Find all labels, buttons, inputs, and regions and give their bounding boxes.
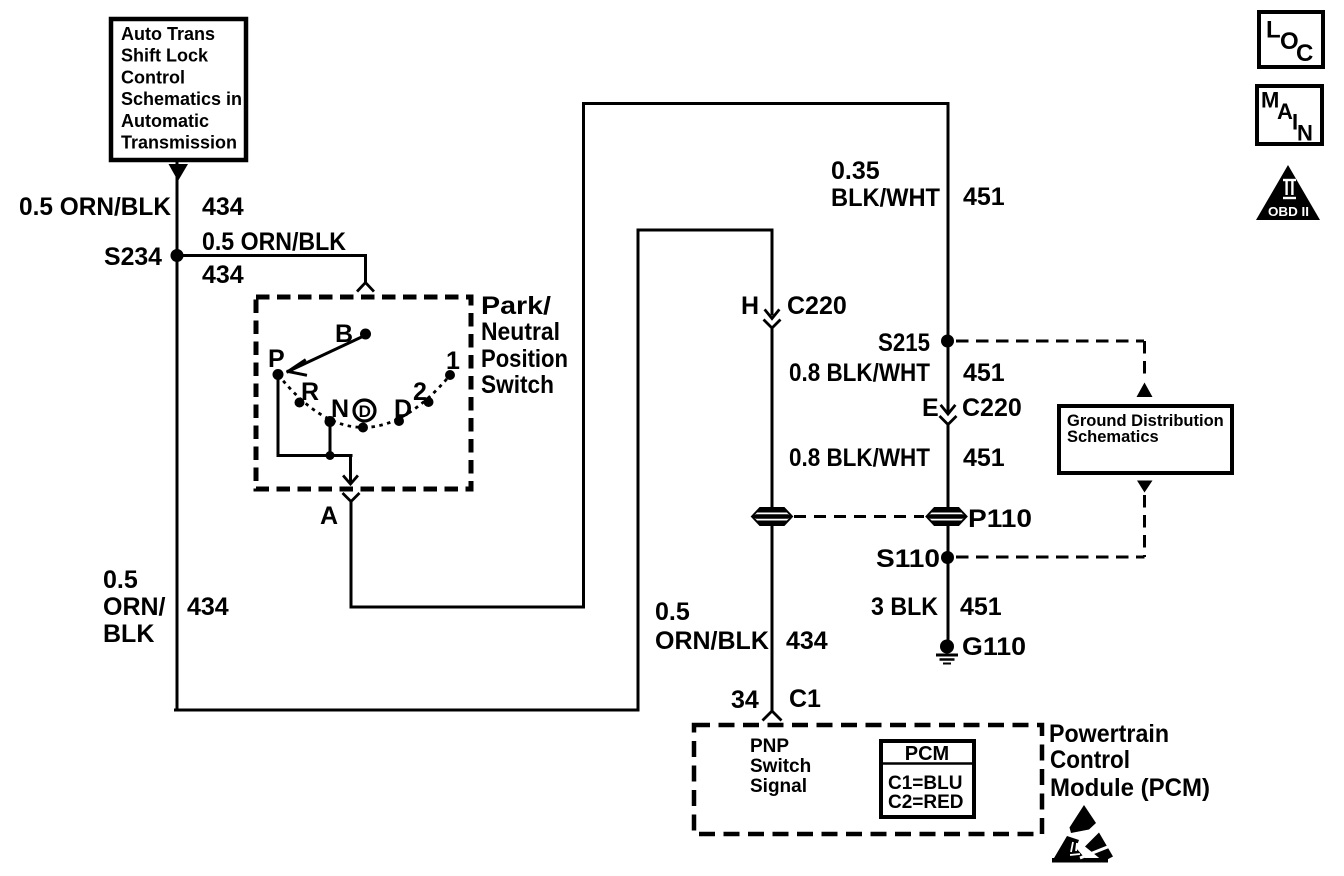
- svg-text:34: 34: [731, 686, 759, 714]
- svg-text:Control: Control: [1050, 746, 1130, 774]
- svg-text:C: C: [1296, 40, 1313, 67]
- svg-text:0.5: 0.5: [655, 598, 690, 626]
- svg-text:Auto Trans: Auto Trans: [121, 24, 215, 44]
- svg-text:PCM: PCM: [905, 743, 949, 765]
- svg-text:A: A: [1277, 99, 1293, 124]
- svg-text:0.5 ORN/BLK: 0.5 ORN/BLK: [19, 193, 171, 221]
- svg-text:H: H: [741, 292, 759, 320]
- svg-text:OBD II: OBD II: [1268, 205, 1309, 219]
- svg-text:Automatic: Automatic: [121, 111, 209, 131]
- svg-text:C1: C1: [789, 685, 821, 713]
- svg-text:ORN/BLK: ORN/BLK: [655, 627, 769, 655]
- svg-text:P: P: [268, 345, 285, 373]
- svg-text:Schematics in: Schematics in: [121, 89, 242, 109]
- svg-text:C1=BLU: C1=BLU: [888, 773, 962, 794]
- svg-text:451: 451: [963, 183, 1005, 211]
- svg-text:Signal: Signal: [750, 776, 807, 797]
- svg-text:451: 451: [963, 359, 1005, 387]
- svg-text:C220: C220: [787, 292, 847, 320]
- svg-text:Transmission: Transmission: [121, 133, 237, 153]
- svg-text:1: 1: [446, 347, 460, 375]
- svg-text:Schematics: Schematics: [1067, 428, 1159, 446]
- svg-text:BLK: BLK: [103, 620, 154, 648]
- svg-text:A: A: [320, 502, 338, 530]
- svg-text:B: B: [335, 320, 353, 348]
- svg-text:Module (PCM): Module (PCM): [1050, 774, 1210, 802]
- svg-text:C2=RED: C2=RED: [888, 792, 964, 813]
- svg-text:0.8 BLK/WHT: 0.8 BLK/WHT: [789, 444, 930, 472]
- svg-text:Neutral: Neutral: [481, 318, 560, 346]
- svg-text:Powertrain: Powertrain: [1049, 720, 1169, 748]
- svg-text:BLK/WHT: BLK/WHT: [831, 184, 940, 212]
- svg-text:S234: S234: [104, 243, 162, 271]
- svg-text:PNP: PNP: [750, 736, 789, 757]
- svg-text:434: 434: [187, 593, 229, 621]
- svg-text:0.5 ORN/BLK: 0.5 ORN/BLK: [202, 228, 346, 256]
- svg-text:Control: Control: [121, 67, 185, 87]
- svg-text:P110: P110: [968, 505, 1032, 533]
- svg-text:0.5: 0.5: [103, 566, 138, 594]
- svg-text:434: 434: [202, 261, 244, 289]
- svg-text:Shift Lock: Shift Lock: [121, 46, 209, 66]
- svg-text:D: D: [359, 402, 371, 421]
- svg-text:451: 451: [960, 593, 1002, 621]
- svg-text:G110: G110: [962, 633, 1026, 661]
- svg-text:Switch: Switch: [750, 756, 811, 777]
- svg-text:2: 2: [413, 378, 427, 406]
- svg-text:434: 434: [202, 193, 244, 221]
- svg-text:3 BLK: 3 BLK: [871, 593, 938, 621]
- svg-text:S110: S110: [876, 545, 940, 573]
- svg-text:434: 434: [786, 627, 828, 655]
- svg-text:N: N: [1297, 121, 1313, 146]
- svg-text:L: L: [1266, 17, 1281, 44]
- svg-text:E: E: [922, 394, 939, 422]
- svg-text:0.8 BLK/WHT: 0.8 BLK/WHT: [789, 359, 930, 387]
- svg-text:C220: C220: [962, 394, 1022, 422]
- svg-text:Position: Position: [481, 345, 568, 373]
- svg-text:ORN/: ORN/: [103, 593, 166, 621]
- svg-text:N: N: [331, 395, 349, 423]
- svg-text:451: 451: [963, 444, 1005, 472]
- svg-text:S215: S215: [878, 329, 930, 357]
- svg-text:Switch: Switch: [481, 371, 554, 399]
- svg-text:D: D: [394, 395, 412, 423]
- svg-text:R: R: [301, 378, 319, 406]
- svg-text:0.35: 0.35: [831, 157, 880, 185]
- svg-text:Park/: Park/: [481, 292, 551, 320]
